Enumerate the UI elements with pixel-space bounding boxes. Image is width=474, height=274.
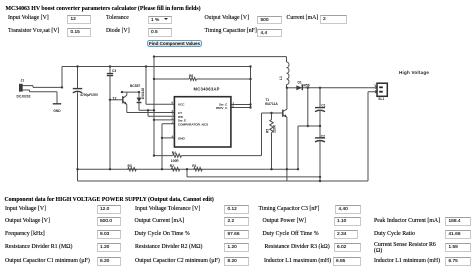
svg-text:VCC: VCC [178, 103, 185, 107]
svg-text:High Voltage: High Voltage [399, 70, 429, 75]
svg-text:R3: R3 [128, 164, 132, 168]
svg-text:L1: L1 [279, 76, 283, 80]
svg-text:R6: R6 [189, 74, 193, 78]
svg-text:SL1: SL1 [378, 97, 384, 101]
svg-text:R2: R2 [170, 164, 174, 168]
svg-text:R4: R4 [172, 151, 176, 155]
svg-text:100R: 100R [171, 159, 180, 163]
svg-text:FR58: FR58 [302, 84, 310, 88]
svg-text:4700µF/25V: 4700µF/25V [80, 93, 99, 97]
svg-text:DRIV_C: DRIV_C [216, 106, 228, 110]
svg-text:C2: C2 [321, 134, 325, 138]
svg-text:GND: GND [178, 137, 186, 141]
svg-text:MC34063AP: MC34063AP [194, 87, 220, 92]
svg-text:BU711A: BU711A [265, 102, 278, 106]
svg-text:GND: GND [53, 109, 61, 113]
svg-text:R5: R5 [265, 129, 269, 133]
svg-text:120R: 120R [272, 124, 276, 133]
svg-text:C3: C3 [112, 69, 116, 73]
svg-text:R1: R1 [192, 164, 196, 168]
svg-text:COMPARATOR_NCS: COMPARATOR_NCS [178, 122, 208, 126]
svg-text:BC557: BC557 [130, 84, 140, 88]
svg-text:DCJ0202: DCJ0202 [17, 95, 31, 99]
svg-text:T2: T2 [113, 97, 117, 101]
svg-text:1N4148: 1N4148 [141, 88, 145, 100]
svg-text:C1: C1 [321, 103, 325, 107]
svg-text:J1: J1 [21, 79, 25, 83]
